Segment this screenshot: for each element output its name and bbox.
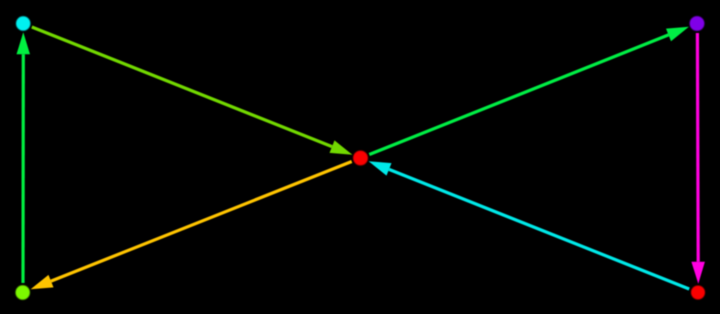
edge E to C (cyan arrow): [369, 161, 690, 289]
node B (green, bottom-left): [16, 285, 30, 299]
edge C to B (gold arrow): [31, 162, 352, 290]
edge B to A (green up arrow): [17, 32, 31, 283]
node E (red, bottom-right): [691, 286, 705, 300]
node C (red, center): [353, 151, 368, 166]
edge A to C (chartreuse arrow): [32, 27, 353, 155]
node D (purple, top-right): [690, 16, 705, 31]
edge D to E (magenta down arrow): [691, 33, 705, 284]
node A (cyan, top-left): [16, 16, 30, 30]
edge C to D (green arrow): [369, 27, 689, 155]
